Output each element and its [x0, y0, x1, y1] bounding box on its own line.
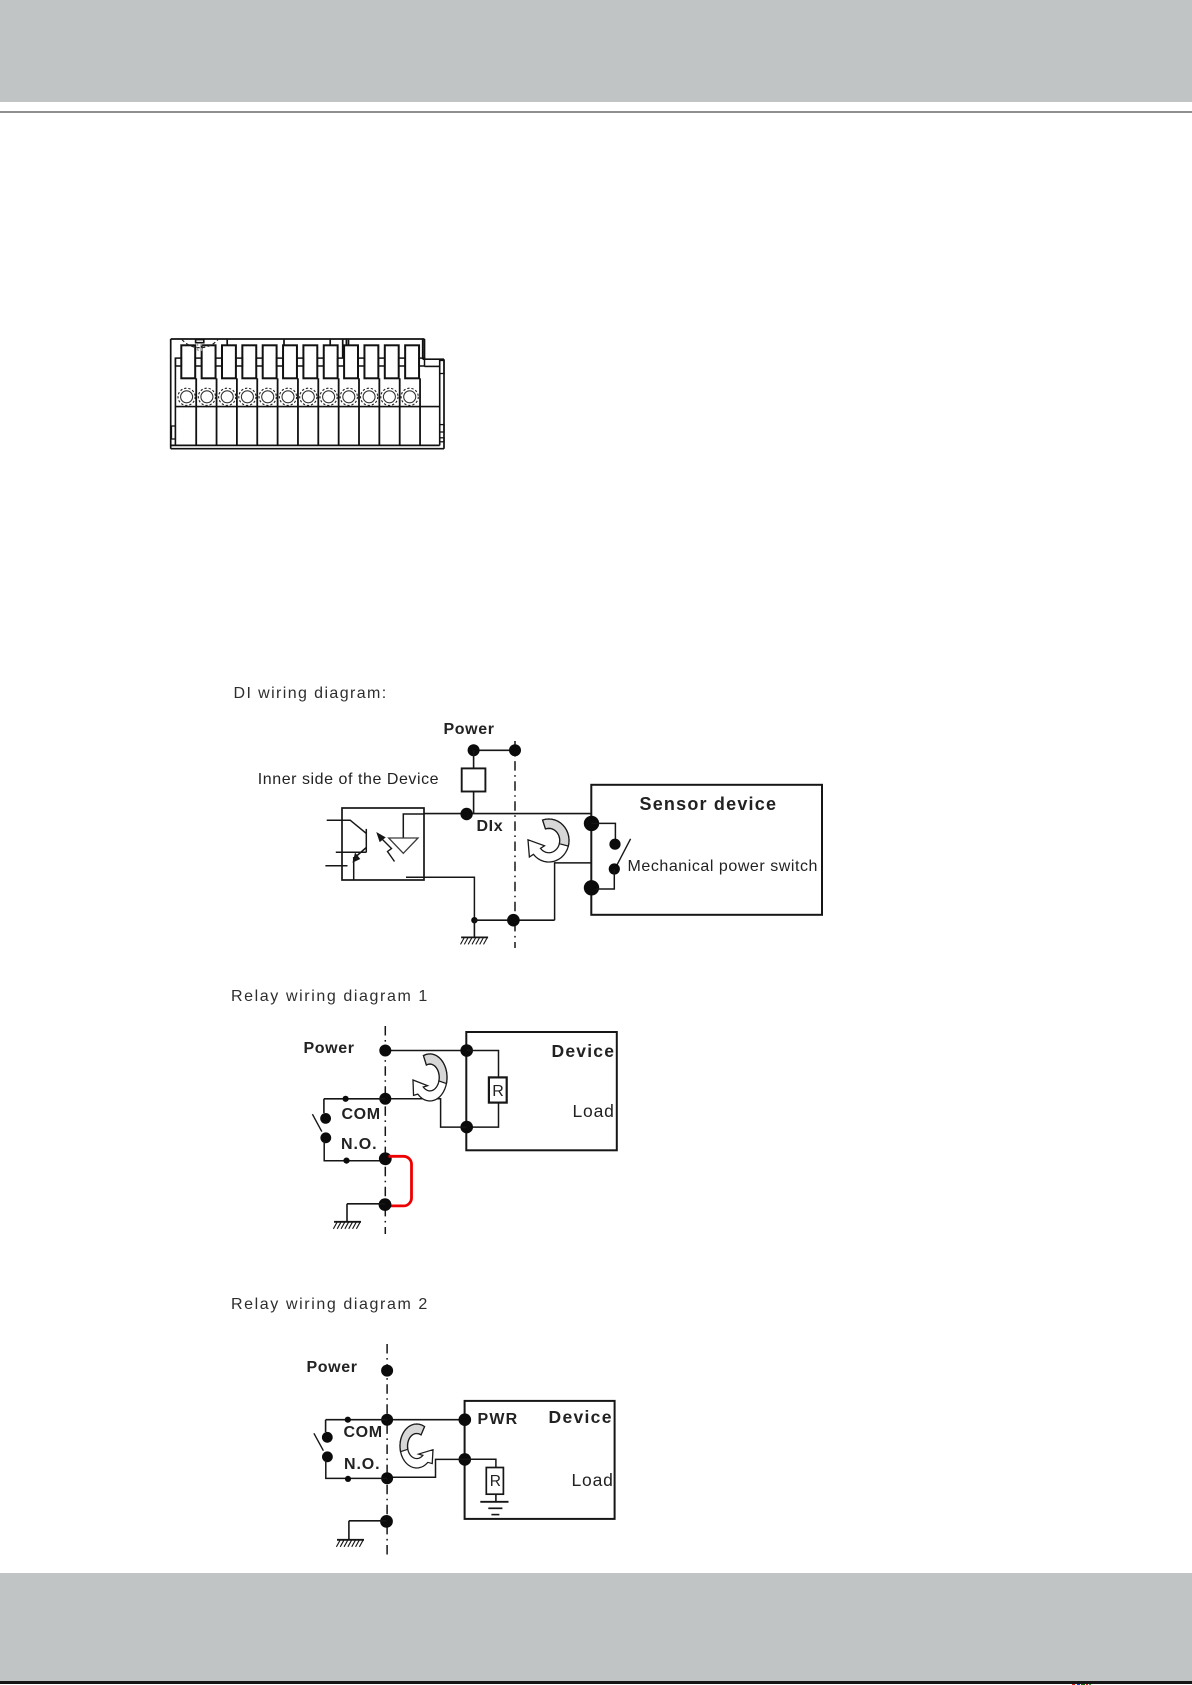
terminal block tab 8	[324, 345, 338, 378]
terminal block end cell top edge	[425, 365, 440, 367]
node COM wire dot (relay2)	[345, 1417, 351, 1423]
label Load (relay1)	[573, 1102, 615, 1121]
node relay2 power	[381, 1365, 393, 1377]
terminal block cell divider 2	[216, 378, 218, 445]
label Mechanical power switch	[628, 858, 819, 876]
node ground stub	[471, 917, 477, 923]
wire Power top	[474, 749, 515, 751]
terminal block cell divider 3	[236, 378, 238, 445]
node relay2 ground junction	[380, 1515, 393, 1528]
terminal block riser a	[226, 340, 228, 346]
terminal block screw hole 12	[401, 388, 418, 405]
wire relay2 ground stub	[349, 1520, 387, 1522]
wire optocoupler bottom out	[406, 877, 474, 920]
node relay1 N.O.	[379, 1152, 392, 1165]
terminal block bridge 5	[256, 358, 263, 366]
wire relay1 ground stub	[347, 1203, 385, 1205]
rotation arrow (relay1)	[413, 1054, 447, 1101]
terminal block cell divider 11	[399, 378, 401, 445]
optocoupler output lead to DIx	[403, 814, 424, 838]
label Device (relay1)	[552, 1042, 616, 1061]
wire COM to switch	[324, 1098, 385, 1100]
node ground bus junction	[507, 914, 520, 927]
wire switch upper branch	[592, 823, 616, 840]
terminal block bridge 2	[195, 358, 201, 366]
terminal block screw hole 8	[320, 388, 337, 405]
terminal block riser b	[283, 340, 285, 346]
wire Power to resistor	[473, 750, 475, 768]
terminal block cell divider 1	[195, 378, 197, 445]
node relay1 power	[379, 1045, 391, 1057]
relay1 switch blade	[312, 1114, 321, 1131]
terminal block bridge 12	[399, 358, 406, 366]
rotation arrow (relay2)	[400, 1424, 433, 1468]
terminal block cell divider 8	[338, 378, 340, 445]
node relay2 N.O.	[381, 1472, 393, 1484]
label N.O. (relay2)	[344, 1456, 381, 1474]
wire R to ground (relay2)	[495, 1494, 497, 1502]
terminal block screw hole 7	[300, 388, 317, 405]
terminal block bridge 11	[378, 358, 384, 366]
label N.O. (relay1)	[341, 1136, 378, 1154]
wire relay2 ground drop	[348, 1521, 350, 1540]
terminal block tab 4	[242, 345, 256, 378]
wire relay1 power to device	[385, 1050, 466, 1052]
wire relay1 ground drop	[346, 1204, 348, 1222]
terminal block tab 11	[385, 345, 399, 378]
terminal block bridge 9	[338, 358, 345, 366]
terminal block cell divider 4	[256, 378, 258, 445]
op-to U1 optocoupler box	[342, 808, 424, 880]
wire COM to switch (relay2)	[326, 1419, 388, 1421]
terminal block screw hole 2	[198, 388, 215, 405]
terminal block bridge 10	[358, 358, 365, 366]
wire R branch bottom	[467, 1103, 499, 1128]
label Load (relay2)	[572, 1471, 614, 1490]
node relay2 switch lower contact	[322, 1451, 333, 1462]
terminal block bridge 8	[317, 358, 323, 366]
node N.O. wire dot (relay2)	[345, 1476, 351, 1482]
terminal block bridge 6	[277, 358, 283, 366]
terminal block cell divider 7	[317, 378, 319, 445]
terminal block shelf line	[175, 406, 439, 408]
wire switch lower branch	[596, 869, 614, 889]
node device lower terminal (relay2)	[459, 1453, 472, 1466]
wire switch lower to N.O.	[324, 1141, 385, 1161]
terminal block tab 1	[181, 345, 195, 378]
terminal block tab 12	[405, 345, 419, 378]
terminal block bridge 1	[175, 358, 181, 366]
switch blade (mechanical power switch)	[617, 839, 631, 866]
node relay2 COM	[381, 1414, 393, 1426]
ground symbol (relay1)	[333, 1222, 361, 1229]
ground symbol (DI)	[461, 937, 489, 944]
label Power (DI)	[444, 721, 495, 739]
terminal block release lever	[182, 340, 218, 351]
terminal block bridge 13	[419, 358, 424, 366]
relay1 vertical dash-dot net line	[384, 1026, 386, 1234]
node sensor terminal upper	[584, 816, 599, 831]
header gray bar	[0, 0, 1192, 102]
label R (relay1)	[492, 1083, 504, 1101]
wire switch upper drop	[323, 1099, 325, 1113]
label Power (relay2)	[307, 1359, 358, 1377]
terminal block tab 9	[344, 345, 358, 378]
terminal block screw hole 3	[219, 388, 236, 405]
terminal block screw hole 1	[178, 388, 195, 405]
node relay2 switch upper contact	[322, 1432, 333, 1443]
node device terminal top	[460, 1044, 473, 1057]
wire switch upper drop (relay2)	[325, 1420, 327, 1432]
terminal block screw hole 9	[340, 388, 357, 405]
wire device bottom to COM node	[385, 1099, 466, 1127]
node PWR terminal	[459, 1413, 472, 1426]
wire device lower to N.O. (relay2)	[387, 1459, 465, 1477]
node relay1 switch upper contact	[320, 1113, 331, 1124]
node sensor terminal lower	[584, 880, 599, 895]
node switch lower contact	[609, 863, 620, 874]
sensor device box	[591, 785, 822, 915]
DI vertical dash-dot net line	[514, 741, 516, 948]
label COM (relay1)	[342, 1106, 381, 1124]
terminal block right notch 3	[440, 438, 444, 442]
wire resistor to DIx node	[473, 792, 475, 814]
terminal block right notch 1	[440, 361, 444, 374]
wire ground bus to sensor box	[555, 863, 592, 920]
terminal block cell divider 12	[419, 378, 421, 445]
terminal block bridge 3	[216, 358, 222, 366]
wire switch lower to N.O. (relay2)	[326, 1460, 387, 1478]
terminal block tab 3	[222, 345, 236, 378]
resistor R box (relay2)	[486, 1468, 503, 1495]
label Device (relay2)	[549, 1408, 613, 1427]
terminal block cell divider 6	[297, 378, 299, 445]
rotation arrow (DI)	[528, 819, 569, 862]
terminal block riser d	[342, 340, 344, 359]
terminal block tab 7	[303, 345, 317, 378]
node COM wire dot	[343, 1096, 349, 1102]
terminal block tab 10	[364, 345, 378, 378]
photodiode triangle	[389, 838, 418, 853]
terminal block screw hole 6	[279, 388, 296, 405]
node relay1 ground junction	[379, 1198, 392, 1211]
terminal block bridge 4	[236, 358, 243, 366]
label Sensor device	[640, 795, 778, 815]
footer black line	[0, 1681, 1192, 1684]
resistor R box (relay1)	[489, 1077, 507, 1102]
node Power left	[468, 744, 480, 756]
terminal block riser e2	[348, 340, 350, 345]
label Power (relay1)	[304, 1040, 355, 1058]
wire R branch (relay2)	[465, 1459, 496, 1467]
Relay wiring diagram 2 heading	[231, 1296, 429, 1314]
red jumper wire N.O. to ground	[389, 1156, 412, 1206]
terminal block cell divider 10	[378, 378, 380, 445]
node switch upper contact	[609, 839, 620, 850]
DI wiring diagram heading	[234, 685, 388, 703]
node N.O. wire dot	[343, 1158, 349, 1164]
wire R branch top	[467, 1051, 499, 1078]
light arrow into transistor	[378, 834, 395, 862]
terminal block bridge 7	[297, 358, 304, 366]
terminal block cell divider 5	[277, 378, 279, 445]
wire DIx horizontal	[424, 813, 591, 815]
node relay1 switch lower contact	[320, 1132, 331, 1143]
device box (relay2)	[465, 1401, 615, 1519]
wire relay2 COM to PWR	[387, 1419, 465, 1421]
ground symbol (relay2)	[336, 1540, 364, 1547]
label Inner side of the Device	[258, 771, 439, 789]
node relay1 COM	[379, 1093, 391, 1105]
relay2 switch blade	[314, 1433, 324, 1450]
terminal block right inner wall	[439, 359, 441, 445]
terminal block riser c	[329, 340, 331, 346]
terminal block screw hole 11	[381, 388, 398, 405]
terminal block cell divider 9	[358, 378, 360, 445]
node Power right	[509, 744, 521, 756]
terminal block inner left wall	[174, 358, 176, 445]
label DIx	[477, 818, 504, 836]
terminal block screw hole 10	[361, 388, 378, 405]
terminal block right notch 2	[440, 425, 444, 432]
label COM (relay2)	[344, 1424, 383, 1442]
label R (relay2)	[490, 1473, 501, 1490]
resistor (pull-up) box	[462, 768, 486, 791]
node device terminal bottom	[460, 1121, 473, 1134]
relay2 vertical dash-dot net line	[386, 1344, 388, 1556]
Relay wiring diagram 1 heading	[231, 988, 429, 1006]
terminal block tab 5	[263, 345, 277, 378]
terminal block tab 2	[202, 345, 216, 378]
IEC ground symbol under R	[480, 1502, 508, 1515]
footer tiny url marks	[1072, 1684, 1075, 1685]
phototransistor Q1	[325, 820, 366, 880]
device box (relay1)	[466, 1032, 617, 1150]
terminal block tab 6	[283, 345, 297, 378]
header separator line	[0, 111, 1192, 113]
footer gray bar	[0, 1573, 1192, 1681]
terminal block riser e1	[345, 340, 347, 345]
label PWR	[478, 1411, 519, 1429]
terminal block left notch	[172, 426, 176, 439]
terminal block outer body outline	[171, 339, 444, 449]
node DIx junction	[460, 808, 472, 820]
wire ground drop	[473, 920, 475, 937]
terminal block screw hole 4	[239, 388, 256, 405]
wire ground bus	[474, 919, 554, 921]
terminal block screw hole 5	[259, 388, 276, 405]
